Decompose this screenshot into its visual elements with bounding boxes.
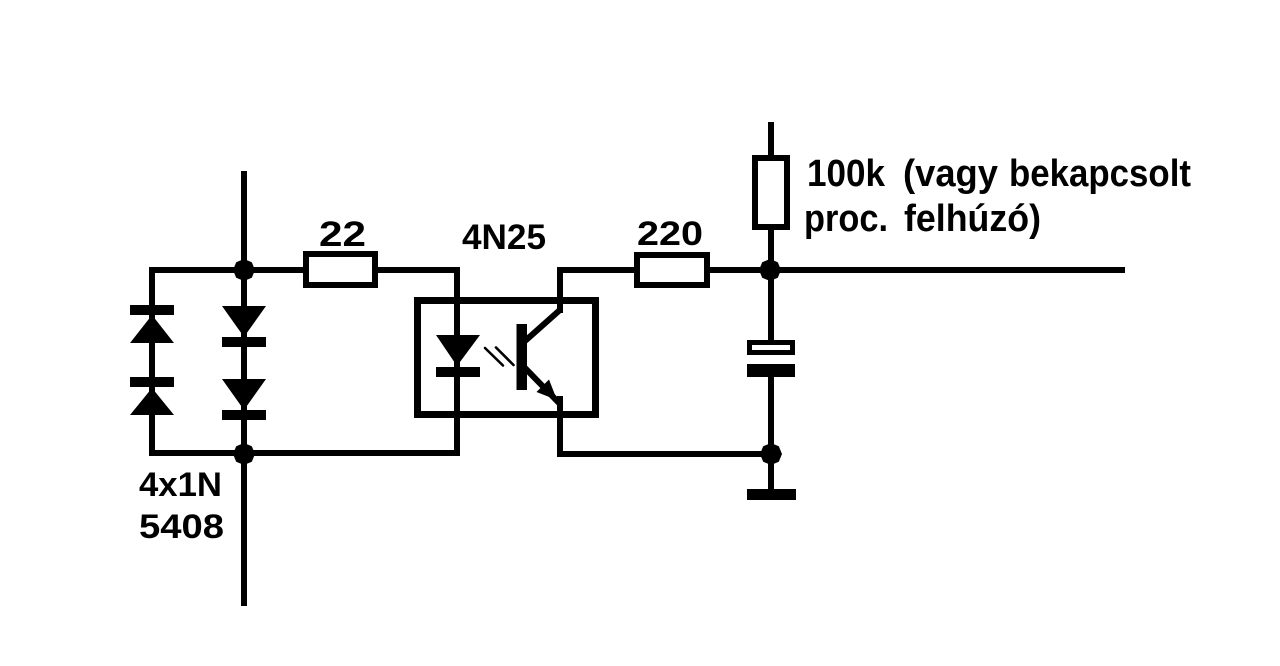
svg-text:100k: 100k bbox=[807, 153, 886, 195]
svg-text:felhúzó): felhúzó) bbox=[904, 198, 1041, 240]
svg-text:(vagy: (vagy bbox=[903, 153, 998, 195]
svg-text:4N25: 4N25 bbox=[462, 218, 546, 257]
svg-text:220: 220 bbox=[637, 215, 703, 253]
svg-text:5408: 5408 bbox=[139, 508, 224, 546]
svg-text:proc.: proc. bbox=[804, 198, 888, 240]
svg-text:4x1N: 4x1N bbox=[139, 466, 222, 504]
svg-text:bekapcsolt: bekapcsolt bbox=[1009, 153, 1191, 195]
svg-text:22: 22 bbox=[319, 215, 366, 254]
